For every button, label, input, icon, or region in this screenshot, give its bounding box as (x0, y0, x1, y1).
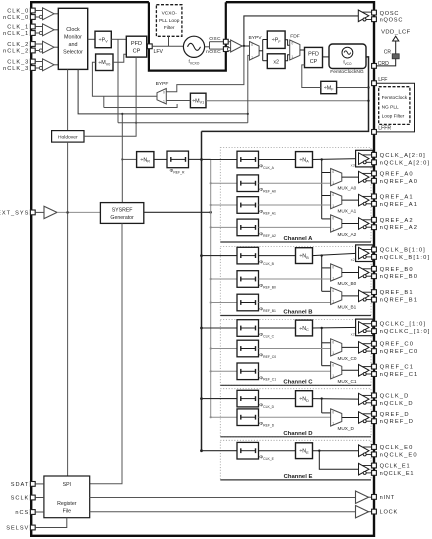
pin nQREF_A0 (372, 178, 377, 183)
wire: PF out to FDF mux (285, 40, 290, 46)
svg-text:MUX_C1: MUX_C1 (338, 379, 357, 384)
pin QREF_D (372, 411, 377, 416)
wire: MV1 out to BYPF input 1 (166, 100, 190, 102)
wire: fvco output down the right side (202, 57, 369, 131)
pin nQREF_D (372, 419, 377, 424)
svg-text:Loop Filter: Loop Filter (382, 114, 405, 120)
wire: delay to divider NA (259, 159, 296, 161)
pin QREF_C1 (372, 364, 377, 369)
external VCXO oscillator fvcxo (183, 36, 204, 57)
wire: delay to divider ND (259, 398, 296, 400)
input buffer OSC (228, 41, 230, 43)
svg-text:CLK_3: CLK_3 (7, 59, 29, 65)
svg-text:QCLK_D: QCLK_D (380, 393, 410, 399)
svg-text:nQREF_B0: nQREF_B0 (380, 274, 418, 280)
svg-text:Channel B: Channel B (283, 310, 312, 316)
pin nQCLK_E1 (372, 471, 377, 476)
wire: tap to NR divider (121, 158, 123, 160)
wire: delayed sysref to MUX_C0 (259, 348, 331, 350)
output buffer QCLK_E1 (359, 463, 370, 475)
pin QREF_A2 (372, 217, 377, 222)
svg-text:nQCLK_E0: nQCLK_E0 (380, 452, 418, 458)
wire: MV0 out to PFD1 feedback input (113, 54, 126, 62)
wire: MUX_A1 to output buffer (342, 199, 359, 201)
svg-text:1: 1 (332, 227, 334, 231)
wire: MUX_B0 to output buffer (342, 272, 359, 274)
pin QREF_B1 (372, 290, 377, 295)
svg-text:x2: x2 (351, 332, 355, 336)
svg-text:1: 1 (332, 351, 334, 355)
pin nQCLK_D (372, 400, 377, 405)
svg-text:Selector: Selector (63, 50, 83, 56)
svg-text:VDD_LCF: VDD_LCF (381, 30, 411, 36)
wire: sysref spine to REF_B1 (210, 301, 212, 303)
delay block phi REF_B1 (237, 294, 259, 311)
wire: holdover down to SPI (67, 142, 69, 476)
svg-text:MUX_A1: MUX_A1 (338, 209, 357, 214)
svg-text:1: 1 (332, 276, 334, 280)
mux MUX_B0 (331, 264, 342, 281)
pin QCLK_E0 (372, 445, 377, 450)
mux MUX_A1 (331, 192, 342, 209)
pin CLK_2 (30, 42, 35, 47)
delay block phi REF_B0 (237, 271, 259, 288)
svg-text:LFFR: LFFR (378, 125, 391, 131)
svg-text:SDAT: SDAT (11, 482, 30, 488)
output buffer QCLK_E (359, 445, 370, 457)
wire: clock into MUX_B1 input 0 (322, 290, 331, 292)
wire: MUX_C0 to output buffer (342, 346, 359, 348)
mux MUX_A2 (331, 215, 342, 232)
pin nCLK_1 (30, 31, 35, 36)
wire: clock into MUX_A0 input 0 (322, 172, 331, 174)
wire: register file to nINT buffer (90, 497, 356, 499)
wire: clock monitor to divider PV (88, 38, 95, 40)
spine: sysref distribution (grey) (210, 159, 212, 417)
svg-text:ΦREF_A0: ΦREF_A0 (259, 187, 276, 193)
block: SYSREF Generator (100, 203, 143, 224)
wire: MUX_D to output buffer (342, 417, 359, 419)
delay block phi CLK_E (237, 442, 259, 459)
svg-text:x2: x2 (273, 59, 279, 65)
wire: divided clock dropper channel D (321, 399, 323, 413)
svg-text:MUX_B1: MUX_B1 (338, 305, 357, 310)
pin nQREF_B0 (372, 274, 377, 279)
svg-text:CLK_2: CLK_2 (7, 42, 29, 48)
pin QREF_A0 (372, 171, 377, 176)
pin SDAT (30, 482, 35, 487)
pin nOSC (223, 47, 228, 52)
pin nQREF_C0 (372, 349, 377, 354)
wire: delay to divider NB (259, 255, 296, 257)
wire: divided clock dropper channel B (321, 256, 323, 292)
svg-text:0: 0 (332, 411, 334, 415)
power arrow VDD_LCF (393, 36, 399, 41)
svg-text:0: 0 (332, 340, 334, 344)
svg-text:nOSC: nOSC (206, 49, 221, 55)
svg-text:CP: CP (310, 59, 318, 65)
wire: delay to divider NE (259, 450, 296, 452)
delay block phi REF_D (237, 409, 259, 426)
svg-text:QREF_D: QREF_D (380, 412, 410, 418)
pin LOCK (372, 509, 377, 514)
svg-text:x2: x2 (351, 258, 355, 262)
wire: delayed sysref to MUX_B1 (259, 302, 331, 304)
wire: from refclock line down to SYSREF generator (121, 114, 123, 203)
svg-text:ΦCLK_B: ΦCLK_B (259, 260, 274, 266)
wire: BYPV out split to PF and x2 (259, 50, 263, 52)
wire: PFD2 out to VCO (323, 56, 330, 58)
block: PFD CP (VCXO PLL) (126, 36, 146, 57)
svg-text:Channel C: Channel C (283, 380, 313, 386)
svg-text:SPI: SPI (63, 482, 71, 488)
wire: SYSREF generator output to distribution (144, 211, 211, 213)
wire: divided clock dropper channel C (321, 328, 323, 366)
divider M_V0 (96, 54, 113, 71)
external block: VCXO-PLL Loop Filter (dashed) (156, 5, 182, 37)
pin QCLK_A[2:0] (372, 152, 377, 157)
pin nINT (372, 495, 377, 500)
wire: clock into MUX_B0 input 0 (322, 267, 331, 269)
wire: fvco spine to channel C clock path (200, 327, 203, 330)
wire: MUX_C1 to output buffer (342, 369, 359, 371)
pin SELSV (30, 525, 35, 530)
svg-text:0: 0 (251, 43, 253, 47)
svg-text:nQREF_A2: nQREF_A2 (380, 225, 418, 231)
wire: EXT_SYS buffer to SYSREF generator (57, 211, 100, 213)
svg-text:1: 1 (332, 421, 334, 425)
svg-text:CRD: CRD (378, 61, 389, 67)
mux MUX_B1 (331, 287, 342, 304)
pin nCLK_3 (30, 66, 35, 71)
pin OSC (223, 39, 228, 44)
input buffer CLK_3 (43, 59, 55, 71)
node: buffered VCXO clock (242, 45, 249, 47)
mux MUX_D (331, 409, 342, 426)
pin nQCLK_B[1:0] (372, 255, 377, 260)
wire: delay to divider NC (259, 327, 296, 329)
pin nQCLK_E0 (372, 452, 377, 457)
output buffer QREF_D (359, 412, 370, 424)
wire: LFV to VCXO (152, 45, 183, 47)
channel C box (220, 319, 371, 385)
svg-text:QREF_C1: QREF_C1 (380, 365, 414, 371)
wire: sysref spine to REF_A0 (210, 182, 212, 184)
wire: sysref spine to REF_A2 (210, 226, 212, 228)
svg-text:fVCXO: fVCXO (189, 59, 200, 65)
svg-text:ΦREF_R: ΦREF_R (170, 168, 185, 174)
input buffer EXT_SYS (44, 206, 57, 218)
wire: loop filter to LFV net (168, 36, 170, 46)
svg-text:BYPF: BYPF (156, 81, 169, 87)
svg-text:ΦREF_A1: ΦREF_A1 (259, 209, 276, 215)
channel D box (220, 389, 371, 437)
wire: fvco spine to channel A clock path (200, 158, 203, 161)
svg-text:0: 0 (163, 91, 165, 95)
svg-text:QREF_B1: QREF_B1 (380, 290, 414, 296)
pin nCLK_0 (30, 15, 35, 20)
output buffer QCLK_D (359, 393, 370, 405)
svg-text:ΦREF_B0: ΦREF_B0 (259, 283, 276, 289)
svg-text:Generator: Generator (110, 215, 134, 221)
svg-text:1: 1 (332, 181, 334, 185)
output buffer nINT (356, 491, 369, 503)
svg-text:MUX_C0: MUX_C0 (338, 356, 357, 361)
pin SCLK (30, 495, 35, 500)
wire: clock into MUX_C1 input 0 (322, 365, 331, 367)
svg-text:nCLK_0: nCLK_0 (3, 15, 29, 21)
wire: delayed sysref to MUX_A2 (259, 226, 331, 228)
wire: CR to CRD pin (376, 59, 395, 66)
divider M_V1 (190, 93, 206, 108)
pin CLK_0 (30, 8, 35, 13)
svg-text:CLK_1: CLK_1 (7, 24, 29, 30)
svg-text:FemtoClock: FemtoClock (382, 95, 408, 101)
pin LFF (372, 81, 377, 86)
delay block phi REF_A1 (237, 197, 259, 214)
wire: fvco spine to channel B clock path (200, 254, 203, 257)
delay block phi REF_A0 (237, 175, 259, 192)
wire: NB out to output buffer (313, 253, 359, 255)
svg-text:QREF_B0: QREF_B0 (380, 267, 414, 273)
svg-text:LFF: LFF (378, 77, 387, 83)
divider N_C (296, 320, 313, 336)
block: SPI Register File (44, 476, 90, 518)
pin QOSC (372, 10, 377, 15)
wire: PV out to PFD1 (111, 38, 126, 40)
svg-text:FDF: FDF (290, 33, 300, 39)
svg-text:1: 1 (332, 204, 334, 208)
wire: NC out to output buffer (313, 326, 359, 329)
svg-text:MUX_D: MUX_D (338, 426, 355, 431)
wire: NE out to QCLK_E1 buffer (319, 451, 358, 470)
output buffer QREF_A0 (359, 171, 370, 183)
wire: BYPF out to MV0 (92, 62, 157, 96)
wire: clock into MUX_A2 input 0 (322, 218, 331, 220)
wire: delayed sysref to MUX_C1 (259, 370, 331, 372)
wire: MF out to PFD2 feedback (302, 65, 321, 88)
wire: MUX_A2 to output buffer (342, 223, 359, 225)
output buffer QREF_B1 (359, 290, 370, 302)
svg-text:QCLK_B[1:0]: QCLK_B[1:0] (380, 248, 426, 254)
svg-text:nQREF_D: nQREF_D (380, 419, 414, 425)
wire: PV tap down to bypass line (117, 39, 119, 122)
output buffer QREF_A1 (359, 194, 370, 206)
wire: SDAT to register file (35, 483, 44, 485)
svg-text:ΦREF_A2: ΦREF_A2 (259, 231, 276, 237)
chip boundary (IC outline with VCXO notch) (31, 2, 374, 536)
svg-text:ΦCLK_A: ΦCLK_A (259, 164, 274, 170)
wire: MUX_A0 to output buffer (342, 176, 359, 178)
svg-text:Holdover: Holdover (58, 135, 78, 141)
wire: VCXO clock up to QOSC buffer (244, 16, 358, 46)
input buffer CLK_2 (43, 41, 55, 53)
svg-text:CR: CR (384, 50, 392, 56)
divider P_V (95, 31, 111, 48)
output buffer QREF_A2 (359, 218, 370, 230)
wire: SCLK to register file (35, 497, 44, 499)
svg-text:SELSV: SELSV (6, 525, 29, 531)
svg-text:0: 0 (332, 217, 334, 221)
wire: NE out to output buffer (313, 450, 359, 452)
svg-text:QCLK_E0: QCLK_E0 (380, 445, 414, 451)
svg-text:nQREF_C0: nQREF_C0 (380, 349, 419, 355)
wire: sysref spine to REF_C1 (210, 370, 212, 372)
svg-text:0: 0 (291, 42, 293, 46)
svg-text:nQREF_C1: nQREF_C1 (380, 372, 419, 378)
svg-text:QREF_A1: QREF_A1 (380, 194, 414, 200)
svg-text:1: 1 (332, 300, 334, 304)
svg-text:Register: Register (57, 501, 77, 507)
svg-text:Filter: Filter (164, 25, 175, 31)
svg-text:QREF_A0: QREF_A0 (380, 171, 414, 177)
svg-text:Channel E: Channel E (284, 474, 313, 480)
svg-text:nCLK_2: nCLK_2 (3, 48, 29, 54)
wire: sysref delay out across spine (189, 158, 211, 160)
svg-text:nQREF_A0: nQREF_A0 (380, 179, 418, 185)
wire: clock into MUX_C0 input 0 (322, 342, 331, 344)
wire: NA out to output buffer (313, 158, 359, 161)
output buffer QREF_C0 (359, 342, 370, 354)
wire: VCXO out to OSC/nOSC pins (205, 46, 210, 48)
wire: delayed sysref to MUX_D (259, 416, 331, 418)
wire: NR to sysref delay (154, 158, 167, 160)
wire: delayed sysref to MUX_A1 (259, 204, 331, 206)
wire: sysref spine to REF_D (210, 416, 212, 418)
wire: SELSV to register file (35, 518, 67, 528)
svg-text:nQCLK_A[2:0]: nQCLK_A[2:0] (380, 160, 431, 166)
output buffer QREF_C1 (359, 365, 370, 377)
wire: bypass line to BYPV input 1 (118, 122, 248, 124)
pin QREF_A1 (372, 194, 377, 199)
wire: fvco spine to channel E clock path (200, 449, 203, 452)
delay block phi CLK_B (237, 247, 259, 264)
svg-text:nCLK_1: nCLK_1 (3, 31, 29, 37)
delay block phi CLK_C (237, 320, 259, 337)
svg-text:EXT_SYS: EXT_SYS (0, 210, 29, 216)
delay block phi CLK_A (237, 151, 259, 168)
pin QCLK_B[1:0] (372, 247, 377, 252)
mux MUX_C1 (331, 362, 342, 379)
divider N_R (137, 152, 154, 168)
divider N_E (296, 443, 313, 459)
pin QREF_C0 (372, 341, 377, 346)
wire: fvco spine to channel D clock path (200, 397, 203, 400)
svg-text:QCLKC_[1:0]: QCLKC_[1:0] (380, 322, 427, 328)
divider N_D (296, 391, 313, 407)
output buffer QREF_B0 (359, 267, 370, 279)
svg-text:QCLK_E1: QCLK_E1 (380, 464, 411, 470)
svg-text:QOSC: QOSC (380, 11, 400, 17)
svg-text:QREF_A2: QREF_A2 (380, 218, 414, 224)
pin nQCLK_A[2:0] (372, 160, 377, 165)
svg-text:SYSREF: SYSREF (112, 208, 133, 214)
channel E box (220, 440, 371, 480)
output buffer QOSC (358, 10, 369, 22)
wire: clock into MUX_A1 input 0 (322, 195, 331, 197)
wire: VCXO clock down to BYPF mux (166, 46, 244, 92)
svg-text:Monitor: Monitor (64, 35, 82, 41)
wire: delayed sysref to MUX_A0 (259, 182, 331, 184)
delay block phi REF_C1 (237, 363, 259, 380)
spine: fvco clock distribution (dark) (201, 131, 203, 450)
output buffer bank QCLK_A (356, 150, 373, 167)
pin LFFR (372, 130, 377, 135)
wire: SYSREF generator down to register file (90, 223, 122, 483)
pin nQREF_B1 (372, 297, 377, 302)
block: FemtoClockNG VCO (329, 44, 366, 69)
svg-text:x3: x3 (351, 164, 355, 168)
input buffer CLK_1 (43, 24, 55, 36)
svg-text:nCS: nCS (15, 510, 29, 516)
svg-text:PLL Loop: PLL Loop (159, 18, 180, 24)
svg-text:SCLK: SCLK (11, 495, 30, 501)
svg-text:QCLK_A[2:0]: QCLK_A[2:0] (380, 153, 426, 159)
svg-text:ΦREF_B1: ΦREF_B1 (259, 307, 276, 313)
wire: divided clock dropper channel A (321, 160, 323, 219)
channel A box (220, 148, 371, 243)
pin nCLK_2 (30, 48, 35, 53)
svg-text:QREF_C0: QREF_C0 (380, 342, 414, 348)
svg-text:1: 1 (163, 99, 165, 103)
svg-text:Clock: Clock (66, 27, 80, 33)
svg-text:nQCLK_B[1:0]: nQCLK_B[1:0] (380, 255, 431, 261)
svg-text:MUX_A0: MUX_A0 (338, 186, 357, 191)
svg-text:MUX_A2: MUX_A2 (338, 232, 357, 237)
delay block phi REF_R (167, 151, 189, 168)
wire: VDD to resistor CR (395, 41, 397, 54)
external block: FemtoClock NG PLL Loop Filter (dashed) (379, 87, 410, 125)
svg-text:ΦCLK_E: ΦCLK_E (259, 455, 274, 461)
wire: PFD1 out to LFV pin (147, 45, 150, 47)
pin QCLKC_[1:0] (372, 321, 377, 326)
wire: sysref spine to REF_A1 (210, 204, 212, 206)
block x2 multiplier (267, 54, 285, 69)
svg-text:1: 1 (332, 374, 334, 378)
pin nQREF_A1 (372, 201, 377, 206)
wire: clock monitor to BYPV input 1 (dark) (78, 69, 248, 114)
wire: stub below BYPF (104, 104, 177, 108)
output buffer bank QCLK_C (356, 319, 373, 336)
pin CLK_3 (30, 59, 35, 64)
svg-text:LFV: LFV (154, 49, 164, 55)
delay block phi CLK_D (237, 390, 259, 407)
block: Holdover (52, 131, 84, 143)
svg-text:File: File (63, 508, 71, 514)
svg-text:NG PLL: NG PLL (382, 104, 399, 110)
svg-text:0: 0 (332, 363, 334, 367)
svg-text:CLK_0: CLK_0 (7, 8, 29, 14)
svg-text:nQOSC: nQOSC (380, 17, 404, 23)
wire: ND out to output buffer (313, 398, 359, 401)
svg-text:nQCLK_E1: nQCLK_E1 (380, 471, 415, 477)
pin CRD (372, 64, 377, 69)
wire: holdover to PFD1 via riser (84, 57, 136, 136)
pin QREF_B0 (372, 266, 377, 271)
pin LFV (147, 44, 152, 49)
block: Clock Monitor and Selector (58, 8, 87, 69)
wire: LFF to external loop filter (376, 83, 414, 132)
wire: sysref spine to REF_B0 (210, 278, 212, 280)
divider N_B (296, 248, 313, 264)
svg-text:0: 0 (332, 193, 334, 197)
pin nQREF_C1 (372, 372, 377, 377)
wire: clock into MUX_D input 0 (322, 412, 331, 414)
notch border around external VCXO area (149, 2, 226, 70)
svg-text:ΦREF_C1: ΦREF_C1 (259, 375, 276, 381)
block: PFD CP (FemtoClockNG PLL) (305, 47, 323, 67)
svg-text:BYPV: BYPV (248, 35, 262, 41)
